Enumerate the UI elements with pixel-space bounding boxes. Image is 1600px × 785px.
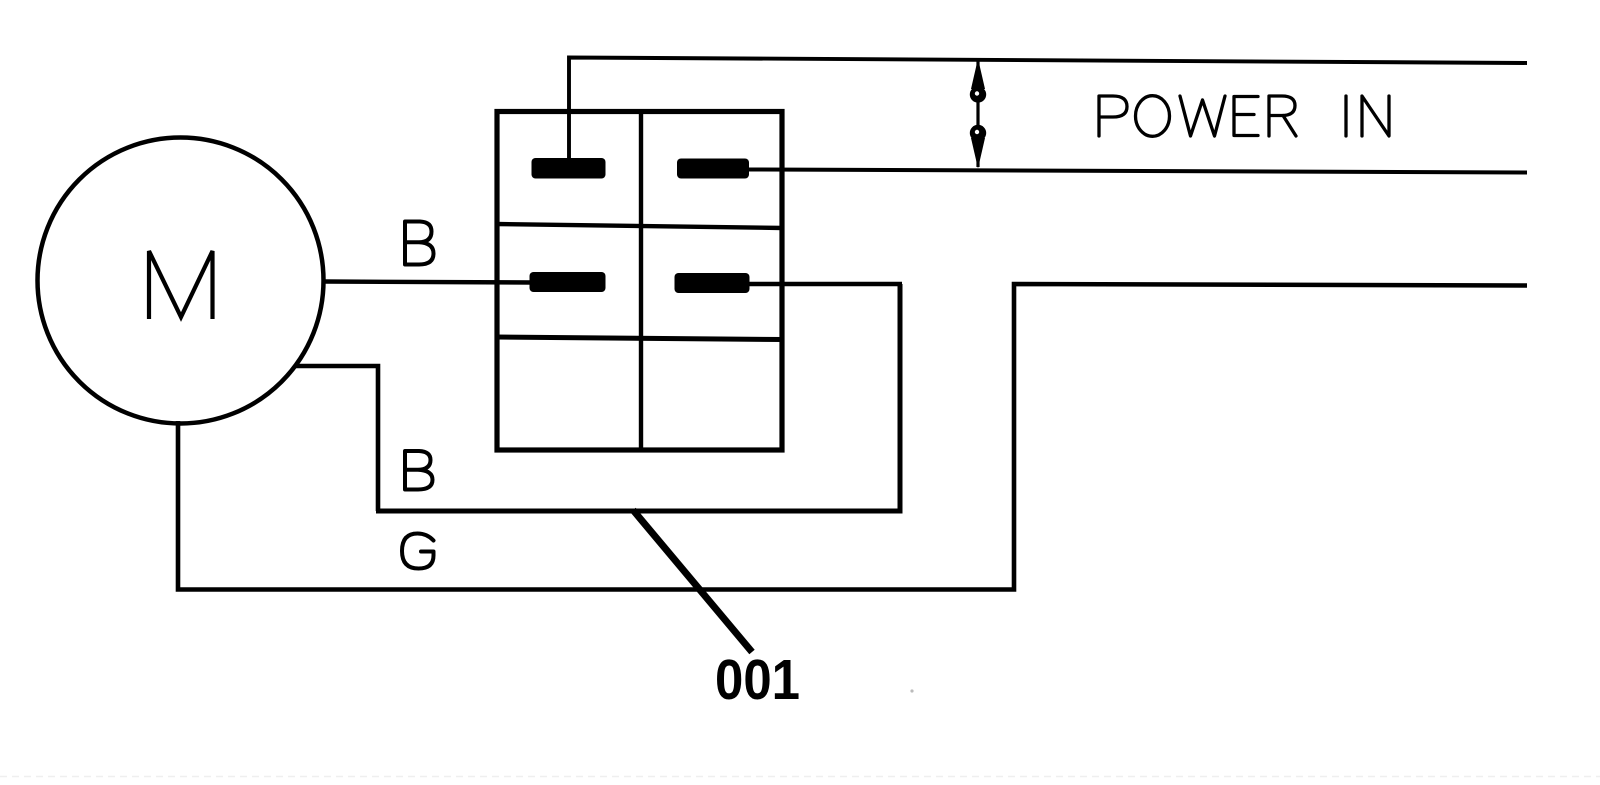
- wire: lower B run to riser: [376, 284, 900, 511]
- motor circle: [38, 138, 324, 424]
- terminal bar mid-left: [530, 272, 606, 292]
- wire: POWER IN lower line from switch right terminal to right edge: [748, 170, 1527, 173]
- wire: motor bottom to ground run: [178, 284, 1527, 590]
- R: [1269, 96, 1296, 136]
- motor letter M: [149, 251, 213, 319]
- terminal bar top-right: [677, 159, 749, 179]
- switch block row divider 2: [496, 337, 783, 340]
- label B (lower): [405, 451, 433, 490]
- wire: motor lower-right to B run: [296, 366, 378, 511]
- terminal bar top-left: [532, 158, 606, 179]
- switch block row divider 1: [496, 224, 783, 228]
- faint scan artifact line at bottom: [0, 776, 1600, 778]
- svg-text:001: 001: [715, 648, 800, 712]
- N: [1362, 96, 1389, 136]
- terminal bar mid-right: [675, 273, 750, 293]
- W: [1180, 96, 1225, 136]
- stray speck: [910, 689, 913, 692]
- label POWER IN (stroke lettering): [1099, 96, 1389, 137]
- wire: motor to mid-left terminal (B): [324, 282, 534, 283]
- leader line to 001: [633, 510, 752, 652]
- switch block outline: [497, 112, 782, 451]
- wire: mid-right terminal to riser: [748, 282, 902, 286]
- label G: [402, 534, 434, 569]
- P: [1099, 96, 1127, 136]
- label B (upper): [405, 222, 434, 265]
- switch block vertical divider: [639, 111, 643, 450]
- wire: top power line from switch terminal to right edge: [569, 58, 1527, 162]
- dimension arrow (double-headed) between power lines: [970, 59, 986, 169]
- I: [1344, 96, 1347, 136]
- E: [1234, 97, 1258, 136]
- O: [1136, 96, 1170, 137]
